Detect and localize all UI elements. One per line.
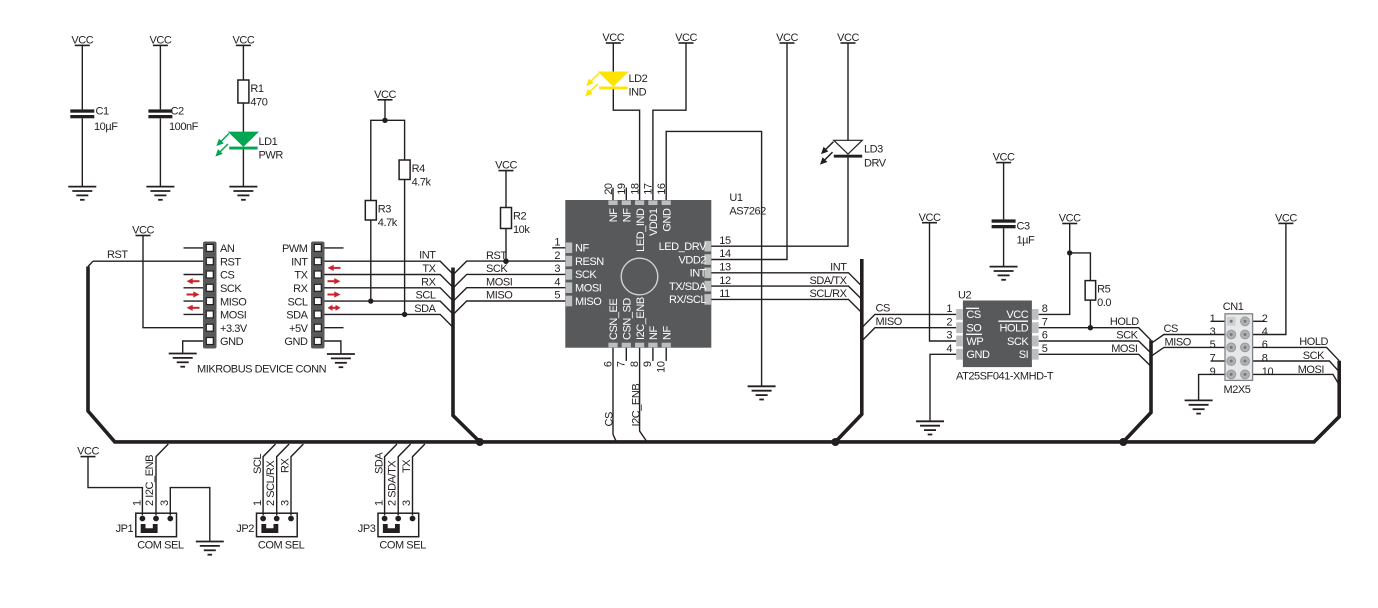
svg-text:JP2: JP2: [236, 523, 254, 535]
svg-text:NF: NF: [622, 208, 634, 222]
svg-text:2: 2: [1262, 313, 1268, 325]
svg-text:MOSI: MOSI: [220, 310, 247, 322]
svg-text:5: 5: [1210, 339, 1216, 351]
svg-text:3: 3: [1210, 326, 1216, 338]
svg-text:3: 3: [946, 330, 952, 342]
svg-text:HOLD: HOLD: [1110, 316, 1139, 328]
svg-text:SDA: SDA: [286, 310, 308, 322]
svg-text:R3: R3: [378, 204, 391, 216]
svg-text:8: 8: [1262, 353, 1268, 365]
svg-text:SO: SO: [966, 323, 982, 335]
svg-text:C3: C3: [1017, 221, 1030, 233]
svg-text:2 SDA/TX: 2 SDA/TX: [386, 460, 398, 506]
svg-text:5: 5: [554, 290, 560, 302]
svg-text:INT: INT: [419, 250, 436, 262]
svg-text:CS: CS: [603, 412, 615, 426]
svg-text:WP: WP: [966, 336, 983, 348]
svg-text:16: 16: [656, 183, 668, 195]
svg-text:AT25SF041-XMHD-T: AT25SF041-XMHD-T: [956, 371, 1054, 383]
svg-text:2: 2: [946, 316, 952, 328]
svg-text:4: 4: [946, 343, 952, 355]
svg-text:CN1: CN1: [1223, 301, 1244, 313]
svg-text:SDA: SDA: [414, 303, 436, 315]
svg-text:CS: CS: [876, 303, 890, 315]
svg-text:9: 9: [642, 361, 654, 367]
svg-text:SI: SI: [1019, 349, 1029, 361]
svg-text:MISO: MISO: [486, 290, 513, 302]
svg-text:100nF: 100nF: [169, 121, 199, 133]
svg-text:COM SEL: COM SEL: [379, 540, 426, 552]
svg-text:MISO: MISO: [220, 296, 247, 308]
svg-text:14: 14: [719, 248, 731, 260]
svg-text:NF: NF: [608, 208, 620, 222]
svg-text:R1: R1: [250, 83, 263, 95]
svg-text:6: 6: [1042, 330, 1048, 342]
svg-text:VDD2: VDD2: [678, 254, 706, 266]
svg-text:4.7k: 4.7k: [412, 177, 432, 189]
svg-text:5: 5: [1042, 343, 1048, 355]
svg-text:SCK: SCK: [1303, 350, 1325, 362]
svg-text:17: 17: [643, 183, 655, 195]
svg-text:SCK: SCK: [575, 269, 597, 281]
svg-text:13: 13: [719, 262, 731, 274]
svg-text:LD1: LD1: [259, 136, 278, 148]
svg-text:2 I2C_ENB: 2 I2C_ENB: [144, 455, 156, 506]
svg-text:AN: AN: [220, 243, 235, 255]
svg-text:SCK: SCK: [486, 263, 508, 275]
svg-text:1: 1: [946, 303, 952, 315]
svg-text:10k: 10k: [513, 224, 530, 236]
svg-text:GND: GND: [220, 336, 244, 348]
svg-text:4: 4: [1262, 326, 1268, 338]
svg-text:RX: RX: [280, 458, 292, 473]
svg-text:DRV: DRV: [864, 158, 887, 170]
svg-text:NF: NF: [661, 326, 673, 340]
svg-text:9: 9: [1210, 366, 1216, 378]
svg-text:TX/SDA: TX/SDA: [669, 281, 707, 293]
svg-text:JP1: JP1: [116, 523, 134, 535]
svg-text:1: 1: [1210, 313, 1216, 325]
svg-text:8: 8: [629, 361, 641, 367]
svg-text:GND: GND: [284, 336, 308, 348]
svg-text:INT: INT: [291, 256, 308, 268]
svg-text:7: 7: [1042, 316, 1048, 328]
svg-text:COM SEL: COM SEL: [258, 540, 305, 552]
svg-text:TX: TX: [294, 270, 308, 282]
svg-text:GND: GND: [661, 208, 673, 232]
svg-text:RESN: RESN: [575, 256, 604, 268]
svg-text:SCL: SCL: [287, 296, 307, 308]
svg-text:U2: U2: [958, 290, 971, 302]
svg-text:2 SCL/RX: 2 SCL/RX: [265, 460, 277, 506]
svg-text:MISO: MISO: [1165, 336, 1192, 348]
svg-text:LD3: LD3: [864, 144, 883, 156]
svg-text:CS: CS: [220, 270, 234, 282]
svg-text:1: 1: [252, 500, 264, 506]
svg-text:SCL: SCL: [252, 454, 264, 474]
svg-text:VCC: VCC: [1006, 309, 1028, 321]
svg-text:12: 12: [719, 275, 731, 287]
svg-text:10µF: 10µF: [94, 121, 118, 133]
svg-text:4: 4: [554, 276, 560, 288]
svg-text:INT: INT: [690, 268, 707, 280]
svg-text:MISO: MISO: [575, 296, 602, 308]
svg-text:8: 8: [1042, 303, 1048, 315]
svg-text:SCL/RX: SCL/RX: [809, 288, 847, 300]
svg-text:GND: GND: [966, 349, 990, 361]
svg-text:U1: U1: [729, 192, 742, 204]
svg-text:1: 1: [374, 500, 386, 506]
svg-text:PWR: PWR: [259, 149, 284, 161]
svg-text:LED_IND: LED_IND: [635, 208, 647, 252]
svg-text:LD2: LD2: [629, 73, 648, 85]
svg-text:MOSI: MOSI: [575, 283, 602, 295]
svg-text:HOLD: HOLD: [1000, 323, 1029, 335]
svg-text:MOSI: MOSI: [1111, 343, 1138, 355]
svg-text:CS: CS: [966, 309, 980, 321]
svg-text:7: 7: [616, 361, 628, 367]
svg-text:1µF: 1µF: [1017, 235, 1036, 247]
svg-text:I2C_ENB: I2C_ENB: [635, 297, 647, 340]
svg-text:LED_DRV: LED_DRV: [659, 241, 708, 253]
svg-text:HOLD: HOLD: [1299, 336, 1328, 348]
svg-text:SCK: SCK: [1116, 330, 1138, 342]
svg-text:TX: TX: [401, 459, 413, 473]
svg-text:PWM: PWM: [282, 243, 308, 255]
svg-text:2: 2: [554, 250, 560, 262]
svg-text:MIKROBUS DEVICE CONN: MIKROBUS DEVICE CONN: [197, 364, 327, 376]
svg-text:AS7262: AS7262: [729, 206, 766, 218]
svg-text:R2: R2: [513, 211, 526, 223]
svg-text:NF: NF: [575, 243, 589, 255]
svg-text:6: 6: [1262, 339, 1268, 351]
svg-text:3: 3: [401, 500, 413, 506]
svg-text:MOSI: MOSI: [1298, 364, 1325, 376]
svg-text:1: 1: [131, 500, 143, 506]
svg-text:C1: C1: [96, 106, 109, 118]
svg-text:3: 3: [159, 500, 171, 506]
svg-text:RX: RX: [421, 276, 436, 288]
svg-text:+3.3V: +3.3V: [220, 323, 248, 335]
svg-text:+5V: +5V: [289, 323, 309, 335]
svg-text:I2C_ENB: I2C_ENB: [630, 384, 642, 427]
svg-text:RX: RX: [293, 283, 308, 295]
svg-text:RX/SCL: RX/SCL: [669, 294, 706, 306]
svg-text:IND: IND: [629, 87, 647, 99]
svg-text:3: 3: [554, 263, 560, 275]
svg-text:20: 20: [603, 183, 615, 195]
svg-text:JP3: JP3: [358, 523, 376, 535]
svg-text:SCK: SCK: [1007, 336, 1029, 348]
svg-text:INT: INT: [830, 262, 847, 274]
svg-text:18: 18: [629, 183, 641, 195]
svg-text:6: 6: [602, 361, 614, 367]
svg-text:R5: R5: [1097, 284, 1110, 296]
svg-text:0.0: 0.0: [1097, 297, 1111, 309]
svg-text:7: 7: [1210, 353, 1216, 365]
svg-text:MOSI: MOSI: [486, 276, 513, 288]
svg-text:COM SEL: COM SEL: [137, 540, 184, 552]
svg-text:1: 1: [554, 237, 560, 249]
svg-text:SCK: SCK: [220, 283, 242, 295]
svg-text:SDA: SDA: [374, 452, 386, 474]
svg-text:3: 3: [280, 500, 292, 506]
svg-text:11: 11: [719, 288, 730, 300]
svg-text:M2X5: M2X5: [1224, 384, 1251, 396]
svg-text:MISO: MISO: [876, 316, 903, 328]
svg-text:CS: CS: [1164, 323, 1178, 335]
svg-text:VDD1: VDD1: [648, 208, 660, 236]
svg-text:R4: R4: [412, 163, 425, 175]
svg-text:19: 19: [616, 183, 628, 195]
svg-text:4.7k: 4.7k: [378, 217, 398, 229]
svg-text:SDA/TX: SDA/TX: [809, 275, 847, 287]
svg-text:RST: RST: [220, 256, 241, 268]
svg-text:SCL: SCL: [415, 290, 435, 302]
svg-text:TX: TX: [422, 263, 436, 275]
svg-text:CSN_EE: CSN_EE: [608, 299, 620, 340]
svg-text:CSN_SD: CSN_SD: [622, 298, 634, 340]
svg-text:NF: NF: [648, 326, 660, 340]
svg-text:10: 10: [1262, 366, 1274, 378]
svg-text:RST: RST: [107, 249, 128, 261]
svg-text:15: 15: [719, 235, 731, 247]
svg-text:C2: C2: [171, 106, 184, 118]
svg-text:10: 10: [656, 361, 668, 373]
svg-text:470: 470: [250, 97, 267, 109]
